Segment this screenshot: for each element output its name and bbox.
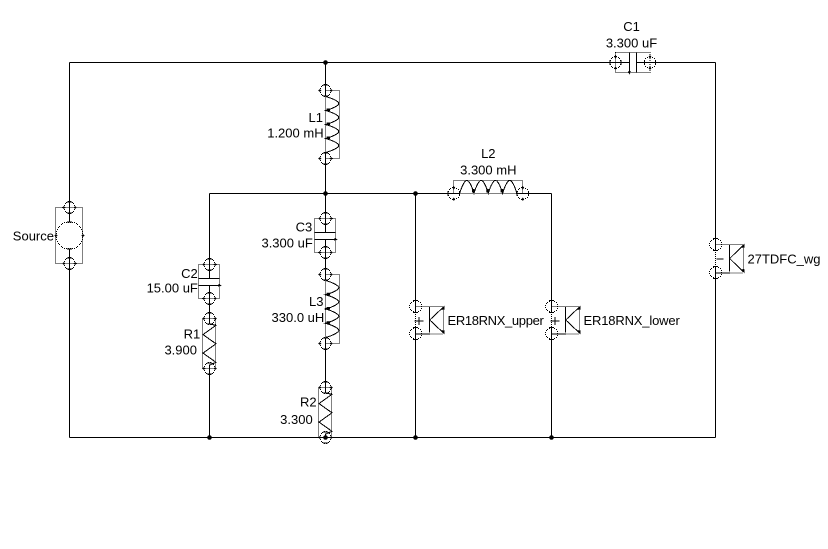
speaker (tweeter) 27TDFC_wg [709,238,745,279]
wire R1 to bottom rail [209,365,211,438]
svg-text:L3: L3 [309,294,323,309]
resistor R2 3.300 [318,381,333,444]
inductor L1 1.200 mH [318,84,339,165]
wire C3 to L3 [325,240,327,281]
svg-text:3.300 uF: 3.300 uF [261,236,312,251]
svg-text:C3: C3 [296,220,313,235]
wire top rail right (C1 to right corner) [637,62,716,64]
wire left column lower (Source to bottom rail) [69,249,71,438]
capacitor C2 15.00 uF [199,258,222,305]
junction node bottom rail / upper speaker [413,435,418,440]
inductor L3 330.0 uH [318,268,339,350]
wire L3 to R2 [325,338,327,394]
wire C3 branch (middle rail to C3) [325,194,327,233]
wire R2 to bottom rail [325,434,327,438]
svg-text:3.900: 3.900 [164,342,197,357]
junction node bottom rail / R1 [207,435,212,440]
wire C2 branch (middle rail to C2) [209,194,211,279]
svg-text:L1: L1 [309,110,323,125]
speaker ER18RNX_lower [545,300,581,340]
wire right column lower (tweeter to bottom rail) [715,267,717,438]
wire upper speaker branch bottom [415,328,417,438]
resistor R1 3.900 [202,312,217,375]
capacitor C3 3.300 uF [315,212,338,259]
wire top rail left (source to C1) [70,62,630,64]
capacitor C1 3.300 uF [609,53,656,75]
wire L1 to middle rail [325,153,327,194]
wire lower speaker branch bottom [551,328,553,438]
svg-text:330.0 uH: 330.0 uH [272,310,325,325]
svg-text:1.200 mH: 1.200 mH [267,125,323,140]
svg-text:3.300: 3.300 [280,412,313,427]
junction node middle rail / L1-C3 [323,191,328,196]
svg-text:ER18RNX_lower: ER18RNX_lower [584,313,681,328]
svg-text:15.00 uF: 15.00 uF [147,280,198,295]
source Source [54,201,84,270]
wire middle rail left segment [210,193,460,195]
wire right column upper (top rail to tweeter) [715,63,717,251]
wire upper speaker branch top [415,194,417,313]
svg-text:3.300 mH: 3.300 mH [460,163,516,178]
wire lower speaker branch top [551,194,553,313]
wire L1 branch top [325,63,327,97]
speaker ER18RNX_upper [409,300,445,340]
junction node top rail / L1 [323,60,328,65]
svg-text:ER18RNX_upper: ER18RNX_upper [448,313,545,328]
junction node bottom rail / R2 [323,435,328,440]
svg-text:L2: L2 [481,146,495,161]
svg-text:27TDFC_wg: 27TDFC_wg [748,252,821,267]
inductor L2 3.300 mH [448,180,529,201]
svg-text:C1: C1 [623,19,640,34]
junction node middle rail / upper speaker [413,191,418,196]
junction node bottom rail / lower speaker [549,435,554,440]
svg-text:Source: Source [13,229,54,244]
wire C2 to R1 [209,286,211,325]
svg-text:R1: R1 [184,326,201,341]
wire left column upper (top rail to Source) [69,63,71,223]
wire middle rail right segment (L2 to corner) [517,193,552,195]
svg-text:R2: R2 [300,395,317,410]
svg-text:3.300 uF: 3.300 uF [606,36,657,51]
wire bottom rail [70,437,716,439]
svg-text:C2: C2 [181,266,198,281]
